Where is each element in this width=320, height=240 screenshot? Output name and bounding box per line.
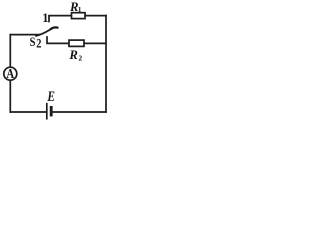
svg-text:1: 1 (78, 5, 82, 14)
svg-text:2: 2 (36, 35, 41, 50)
svg-text:1: 1 (42, 11, 48, 25)
svg-text:A: A (6, 67, 14, 82)
svg-text:S: S (30, 34, 36, 49)
svg-text:R: R (68, 48, 78, 62)
svg-text:2: 2 (78, 53, 82, 62)
svg-text:E: E (47, 89, 56, 105)
